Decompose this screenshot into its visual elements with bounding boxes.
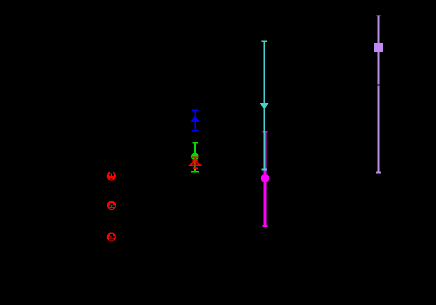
wire magenta vertical error line — [264, 132, 267, 226]
blue top cap — [192, 109, 198, 111]
wire violet vertical error line lower segment — [378, 86, 380, 173]
green errorbar series — [191, 143, 199, 172]
green circle marker — [191, 153, 199, 161]
red top cap — [192, 156, 198, 158]
cyan errorbar series — [260, 41, 269, 169]
violet square marker — [374, 43, 383, 52]
blue bottom cap — [192, 130, 198, 132]
magenta top cap — [263, 131, 268, 133]
red open triangle-up marker — [190, 161, 200, 165]
dark violet upper-limit arrow at top — [376, 15, 382, 18]
wire blue vertical error line — [194, 110, 196, 131]
wire green vertical error line — [194, 143, 196, 172]
violet errorbar series — [374, 15, 383, 172]
magenta circle marker — [261, 174, 270, 183]
cyan bottom cap — [262, 168, 268, 170]
red bottom cap — [193, 167, 198, 169]
cyan top cap — [262, 40, 268, 42]
wire cyan vertical error line — [263, 41, 265, 169]
red small errorbar series with open triangle — [190, 157, 200, 168]
magenta bottom cap — [263, 225, 268, 227]
green top cap — [192, 142, 198, 144]
green bottom cap — [191, 171, 199, 173]
red glyph marker 1 — [107, 171, 116, 180]
magenta errorbar series — [261, 132, 270, 226]
blue triangle-up marker — [190, 115, 199, 122]
red glyph marker 2 — [107, 201, 116, 210]
violet bottom cap — [376, 172, 381, 174]
cyan triangle-down marker — [260, 103, 269, 109]
wire violet vertical error line upper segment — [378, 16, 380, 85]
blue errorbar series — [190, 110, 199, 131]
wire red vertical error line — [194, 157, 196, 168]
red open diamond marker — [193, 158, 197, 162]
red glyph marker 3 — [107, 232, 116, 241]
